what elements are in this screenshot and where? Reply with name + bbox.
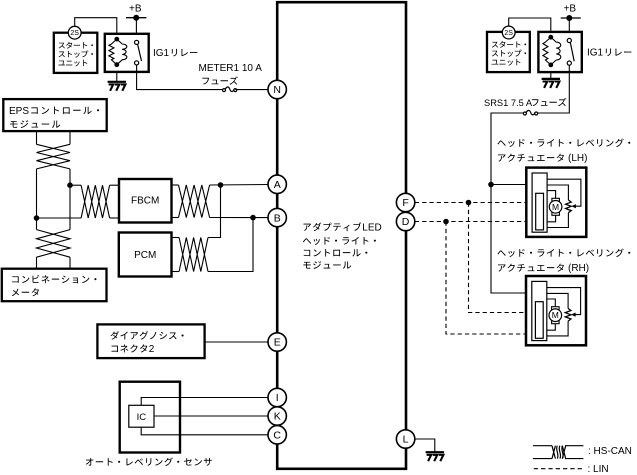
- svg-text:2S: 2S: [504, 30, 513, 37]
- label module line3: [304, 249, 368, 257]
- junction CAN-H rail: [67, 182, 73, 188]
- node L: [396, 430, 414, 448]
- relay IG1 right coil bottom junction: [548, 63, 553, 68]
- wire +B to relay coil right... switch: [568, 18, 570, 41]
- svg-text:2S: 2S: [70, 30, 79, 37]
- label start-stop right line1: [492, 41, 526, 48]
- LH motor minus wire: [547, 215, 556, 222]
- LH wiper wire: [547, 179, 581, 206]
- RH position sensor potentiometer: [565, 308, 571, 321]
- legend HS-CAN top right: [565, 445, 583, 447]
- wire PCM top stub: [172, 237, 180, 239]
- relay IG1 right coil top junction: [548, 35, 553, 40]
- LH motor plus wire: [547, 191, 556, 199]
- label start-stop line1 left: [59, 42, 93, 49]
- relay IG1 right coil winding branch: [551, 37, 561, 65]
- svg-text:LED: LED: [362, 222, 381, 233]
- label diagnosis line1: [111, 331, 184, 340]
- LH leveling motor: [549, 198, 562, 215]
- svg-text:IG1: IG1: [587, 48, 604, 59]
- wire SRS1 feed down: [491, 113, 532, 293]
- svg-text:2: 2: [149, 344, 155, 355]
- svg-text:: LIN: : LIN: [588, 464, 609, 475]
- svg-text:SRS1 7.5 A: SRS1 7.5 A: [484, 98, 533, 108]
- label start-stop right line2: [492, 50, 526, 57]
- headlight leveling actuator (LH) box: [526, 168, 586, 237]
- twisted pair FBCM right: [179, 185, 210, 218]
- wire +B to relay switch: [135, 18, 137, 41]
- wire diagnosis to node E: [205, 341, 269, 343]
- junction LIN F: [466, 200, 472, 206]
- connector 2S left: [68, 26, 81, 39]
- twisted pair FBCM left: [81, 185, 110, 218]
- wire relay switch to fuse METER1: [137, 65, 223, 90]
- wire PCM CAN-L riser: [208, 218, 253, 272]
- wire +B bar left: [126, 17, 146, 19]
- wire CAN rail right upper: [69, 131, 71, 144]
- svg-text:I: I: [276, 392, 279, 404]
- wire to node A: [210, 184, 269, 187]
- relay IG1 left coil winding branch: [117, 39, 127, 65]
- junction B line: [250, 215, 256, 221]
- relay IG1 left box: [105, 34, 149, 72]
- label actuator RH line1: [497, 248, 630, 257]
- wire relay coil to ground right: [550, 64, 552, 79]
- node N: [268, 80, 286, 98]
- svg-text:(RH): (RH): [568, 263, 589, 274]
- node B: [268, 208, 286, 226]
- relay IG1 left switch blade: [138, 44, 142, 61]
- wire CAN rail right mid: [69, 169, 71, 230]
- legend HS-CAN bottom right: [565, 458, 583, 460]
- wire to node B: [210, 217, 269, 219]
- fuse METER1 10A: [223, 87, 237, 92]
- svg-text:+B: +B: [129, 4, 142, 15]
- LH actuator connector: [532, 173, 547, 232]
- wire CAN rail right lower: [69, 257, 71, 269]
- combination meter box: [2, 269, 107, 302]
- twisted pair PCM: [179, 238, 208, 272]
- svg-text:E: E: [274, 337, 281, 349]
- junction A line: [218, 182, 224, 188]
- svg-text:: HS-CAN: : HS-CAN: [588, 446, 632, 457]
- LH wiper arrowhead: [571, 204, 576, 208]
- legend HS-CAN twist strand: [557, 446, 558, 459]
- label actuator LH line2 kana: [498, 154, 564, 162]
- node I: [268, 388, 286, 406]
- node K: [268, 407, 286, 425]
- adaptive LED headlight control module box: [277, 2, 406, 469]
- junction actuator supply: [488, 182, 494, 188]
- label EPS pt2: [31, 107, 99, 115]
- twisted pair EPS upper: [37, 144, 71, 169]
- LH pot bottom wire: [547, 213, 568, 228]
- legend HS-CAN twist exit X: [562, 446, 565, 459]
- connector 2S right: [502, 26, 515, 39]
- relay IG1 left coil bottom junction: [114, 62, 119, 67]
- start-stop unit box left: [54, 33, 98, 73]
- wire branch to LH actuator: [491, 184, 532, 186]
- node E: [268, 333, 286, 351]
- diagnosis connector 2 box: [97, 324, 204, 358]
- legend HS-CAN top left: [533, 445, 552, 447]
- FBCM box: [119, 179, 172, 223]
- LH pot top wire: [547, 185, 568, 200]
- wire +B bar right: [561, 17, 581, 19]
- wire CAN rail left mid: [36, 169, 38, 230]
- ground right relay: [542, 79, 560, 88]
- svg-text:N: N: [273, 84, 281, 96]
- label fuse METER1 line2: [202, 76, 237, 84]
- IC block: [129, 405, 154, 427]
- node C: [268, 426, 286, 444]
- label start-stop right line3: [492, 59, 521, 66]
- svg-text:(LH): (LH): [568, 153, 587, 164]
- wire sensor to node C: [141, 427, 269, 435]
- relay IG1 left coil top junction: [114, 37, 119, 42]
- svg-text:A: A: [274, 179, 281, 191]
- ground left relay: [108, 82, 126, 91]
- svg-text:C: C: [273, 430, 281, 442]
- svg-text:IG1: IG1: [153, 48, 170, 59]
- node A: [268, 175, 286, 193]
- label module line4: [303, 261, 351, 269]
- label EPS line2: [10, 120, 60, 128]
- svg-text:M: M: [552, 202, 559, 212]
- relay IG1 right coil resistor branch: [543, 37, 551, 65]
- wire LIN D branch to RH: [446, 222, 536, 335]
- fuse SRS1 7.5A: [523, 110, 537, 115]
- wire FBCM right top stub: [172, 184, 179, 186]
- wire start-stop unit to relay coil: [75, 18, 117, 38]
- RH pot bottom wire: [547, 321, 568, 336]
- relay IG1 right switch blade: [570, 42, 574, 61]
- label IG1 relay left pt2: [172, 49, 198, 57]
- label module line1 kana: [303, 222, 361, 231]
- LH actuator inner block: [536, 193, 544, 230]
- LH position sensor potentiometer: [566, 200, 572, 213]
- label start-stop line3 left: [58, 60, 87, 67]
- PCM box: [119, 233, 172, 277]
- wire twist to FBCM bottom: [110, 217, 119, 219]
- RH actuator connector: [532, 281, 547, 340]
- wire PCM CAN-H riser: [208, 185, 221, 238]
- legend LIN dashed: [534, 468, 583, 470]
- wire relay coil to ground left: [116, 64, 118, 82]
- label combination meter line2: [12, 288, 39, 296]
- wire LIN from D: [415, 221, 536, 223]
- label IG1 relay right pt2: [606, 49, 632, 57]
- relay IG1 left switch contacts: [135, 40, 139, 65]
- wire CAN-H stub to twist: [70, 184, 81, 186]
- wire sensor to node K: [154, 415, 269, 417]
- wire LIN F branch to RH: [469, 203, 536, 313]
- RH motor minus wire: [547, 324, 556, 331]
- wire CAN rail left upper: [36, 131, 38, 144]
- label start-stop line2 left: [59, 50, 93, 57]
- wire LIN from F: [415, 202, 536, 204]
- svg-text:METER1 10 A: METER1 10 A: [199, 63, 263, 74]
- label fuse SRS1 pt2: [532, 98, 567, 106]
- svg-text:+B: +B: [564, 4, 577, 15]
- auto leveling sensor box: [120, 382, 180, 453]
- RH motor plus wire: [547, 299, 556, 307]
- start-stop unit box right: [487, 32, 530, 72]
- RH wiper arrowhead: [571, 313, 576, 317]
- label combination meter line1: [12, 275, 96, 283]
- legend HS-CAN twist strand: [559, 446, 560, 459]
- wire PCM bottom stub: [172, 271, 180, 273]
- wire sensor to node I: [141, 398, 269, 406]
- wire CAN rail left lower: [36, 257, 38, 269]
- node +B left: [133, 15, 139, 21]
- svg-text:EPS: EPS: [9, 106, 29, 117]
- legend HS-CAN bottom left: [533, 458, 552, 460]
- label actuator RH line2 kana: [498, 264, 564, 272]
- svg-text:D: D: [402, 216, 410, 228]
- svg-text:B: B: [274, 212, 281, 224]
- wire node L to ground: [415, 439, 435, 452]
- label actuator LH line1: [497, 138, 630, 147]
- twisted pair EPS lower: [37, 230, 71, 258]
- node +B right: [566, 15, 572, 21]
- label diagnosis line2: [111, 344, 147, 352]
- wire relay switch to fuse SRS1: [536, 65, 569, 113]
- relay IG1 right switch contacts: [567, 38, 571, 65]
- label module line2: [303, 237, 376, 245]
- svg-text:M: M: [552, 310, 559, 320]
- node D: [396, 212, 414, 230]
- relay IG1 right box: [538, 32, 581, 72]
- ground module: [426, 452, 444, 461]
- wire start-stop to relay coil right: [509, 18, 551, 37]
- RH pot top wire: [547, 293, 568, 308]
- svg-text:L: L: [403, 434, 409, 446]
- RH actuator inner block: [535, 302, 543, 339]
- legend HS-CAN twist strand: [562, 446, 563, 459]
- RH wiper wire: [547, 288, 581, 315]
- relay IG1 left coil resistor branch: [109, 39, 117, 65]
- svg-text:FBCM: FBCM: [131, 195, 159, 206]
- headlight leveling actuator (RH) box: [526, 276, 586, 345]
- wire FBCM right bottom stub: [172, 217, 179, 219]
- svg-text:IC: IC: [137, 412, 147, 423]
- svg-text:F: F: [402, 197, 408, 209]
- wire fuse to node N: [235, 89, 269, 91]
- svg-text:PCM: PCM: [134, 250, 156, 261]
- junction LIN D: [443, 219, 449, 225]
- legend HS-CAN twist entry X: [552, 446, 555, 459]
- junction CAN-L rail: [34, 215, 40, 221]
- EPS control module box: [3, 99, 106, 131]
- node F: [396, 193, 414, 211]
- wire CAN-L stub to twist: [37, 217, 82, 219]
- svg-text:K: K: [274, 411, 281, 423]
- RH leveling motor: [549, 307, 562, 324]
- wire twist to FBCM top: [110, 184, 119, 186]
- label auto leveling sensor: [86, 457, 212, 466]
